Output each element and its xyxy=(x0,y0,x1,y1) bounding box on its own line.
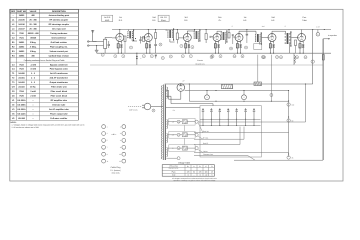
chassis line labels xyxy=(195,59,204,65)
grid condenser C2 xyxy=(210,36,214,37)
cathode network V6 xyxy=(269,41,274,54)
svg-text:11: 11 xyxy=(242,55,244,58)
rectifier output wire B+ xyxy=(185,90,289,91)
filament winding row 2 xyxy=(168,131,198,138)
label box antenna stage xyxy=(102,15,113,22)
wire to V2 grid xyxy=(141,37,145,39)
cathode network V3 xyxy=(185,41,190,54)
bias tap row xyxy=(167,157,181,160)
svg-text:Chassis: Chassis xyxy=(197,59,203,62)
rectifier cathode loop wires xyxy=(166,90,213,107)
label detector stage xyxy=(243,16,247,22)
series resistor in high B+ line xyxy=(254,55,262,86)
svg-text:RF antenna coupler: RF antenna coupler xyxy=(50,19,69,22)
svg-text:24004: 24004 xyxy=(19,54,25,57)
svg-text:90: 90 xyxy=(193,171,195,174)
svg-text:view ends: view ends xyxy=(112,171,120,174)
svg-text:Vol. Ctl.: Vol. Ctl. xyxy=(160,16,167,19)
tube V2 2nd RF amplifier xyxy=(144,34,152,42)
grid leak R1 and condenser xyxy=(228,30,234,45)
svg-text:5: 5 xyxy=(151,55,152,58)
filament pin circles V6 xyxy=(263,56,283,59)
svg-text:Tuning condenser: Tuning condenser xyxy=(50,32,67,35)
plate resistor stage2 xyxy=(155,30,157,42)
svg-text:to speaker: to speaker xyxy=(328,34,337,37)
wire antenna to coil xyxy=(93,41,104,43)
tube V3 3rd RF amplifier xyxy=(183,34,191,42)
svg-text:2 Meg.: 2 Meg. xyxy=(30,41,37,44)
svg-text:Cable Plug: Cable Plug xyxy=(111,166,121,169)
label detector tube xyxy=(218,16,222,22)
svg-text:Bypass condenser: Bypass condenser xyxy=(50,63,68,66)
svg-text:Antenna binding post: Antenna binding post xyxy=(49,14,70,17)
svg-text:9: 9 xyxy=(160,43,161,46)
filter choke CH xyxy=(222,84,233,88)
cathode network V4 xyxy=(214,41,219,54)
svg-text:-40: -40 xyxy=(205,174,208,177)
wire to V7 grid xyxy=(291,37,298,39)
svg-text:7: 7 xyxy=(190,55,191,58)
svg-text:Gr.: Gr. xyxy=(219,19,222,22)
AF transformer T3 interstage xyxy=(285,31,292,53)
svg-text:3rd: 3rd xyxy=(185,16,188,19)
filament pin circles V7 xyxy=(296,56,308,59)
grid leak resistor stage2 xyxy=(143,37,145,42)
svg-text:1st: 1st xyxy=(244,16,247,19)
svg-text:C+: C+ xyxy=(187,165,189,168)
svg-text:Rheo.: Rheo. xyxy=(161,19,167,22)
cathode network V1 xyxy=(117,41,122,54)
svg-text:5: 5 xyxy=(212,174,213,177)
svg-text:Cathode bias resistor: Cathode bias resistor xyxy=(49,54,70,57)
svg-text:Voltage Table: Voltage Table xyxy=(178,161,191,164)
tube V4 detector xyxy=(213,34,221,42)
svg-text:9: 9 xyxy=(211,56,212,59)
svg-text:24-107: 24-107 xyxy=(18,28,25,31)
antenna symbol xyxy=(91,30,94,41)
svg-text:Following numbered as on Socke: Following numbered as on Socket Plug and… xyxy=(24,59,65,62)
condenser block junction rows xyxy=(200,119,261,125)
svg-text:24002: 24002 xyxy=(19,45,25,48)
line row1 to detector riser xyxy=(198,121,305,123)
power transformer HV secondary winding xyxy=(167,87,168,98)
svg-text:24-400: 24-400 xyxy=(18,72,25,75)
RF transformer L3 xyxy=(166,28,174,42)
to speaker label and arrow xyxy=(323,34,337,40)
svg-text:2: 2 xyxy=(207,96,208,99)
svg-text:UX-112A: UX-112A xyxy=(17,112,26,115)
RF transformer L2 xyxy=(127,29,137,41)
plate wire V1 xyxy=(119,29,120,34)
bypass condenser at bus xyxy=(155,55,165,60)
svg-text:2 mfd: 2 mfd xyxy=(30,95,36,98)
svg-text:7: 7 xyxy=(181,45,182,48)
svg-text:24003: 24003 xyxy=(19,50,25,53)
svg-text:UX-280: UX-280 xyxy=(18,117,26,120)
AC line plug xyxy=(128,103,151,110)
svg-text:Output transformer: Output transformer xyxy=(50,81,69,84)
filament winding row 1 xyxy=(168,118,198,125)
svg-text:R.F.: R.F. xyxy=(119,19,123,22)
label 3rd RF tube xyxy=(184,16,188,22)
svg-text:24-410: 24-410 xyxy=(18,86,25,89)
svg-text:10: 10 xyxy=(234,55,236,58)
label box volume control xyxy=(158,15,169,22)
svg-text:2: 2 xyxy=(244,96,245,99)
detector B+ riser wire xyxy=(305,84,307,122)
svg-text:.5 mfd: .5 mfd xyxy=(30,68,37,71)
svg-text:6: 6 xyxy=(182,55,183,58)
AC plug cord wire xyxy=(151,106,163,108)
svg-text:11: 11 xyxy=(245,46,247,49)
svg-text:Plate: Plate xyxy=(172,171,176,174)
svg-text:15: 15 xyxy=(305,56,307,59)
filament pin circles V5 xyxy=(233,55,244,58)
junction terminal B+ 180 xyxy=(287,100,294,106)
svg-text:2. All condenser values are i: 2. All condenser values are in Mfd. xyxy=(12,126,40,129)
svg-text:110 V. A.C.: 110 V. A.C. xyxy=(129,109,138,112)
svg-text:DESCRIPTION: DESCRIPTION xyxy=(52,10,66,13)
AF transformer T1 xyxy=(221,30,228,44)
filament winding row 3 xyxy=(168,145,198,152)
svg-text:R.F.: R.F. xyxy=(152,19,156,22)
svg-text:30 Hy.: 30 Hy. xyxy=(30,86,36,89)
svg-text:Grid condenser: Grid condenser xyxy=(51,36,66,39)
battery cable harness leads xyxy=(194,122,306,160)
junction terminal B+ 90 xyxy=(287,116,293,122)
svg-text:AMP.: AMP. xyxy=(105,19,110,22)
svg-text:2nd: 2nd xyxy=(152,16,155,19)
svg-text:25 - 350: 25 - 350 xyxy=(29,28,37,31)
svg-text:2nd AF transformer: 2nd AF transformer xyxy=(50,77,69,80)
harness left merge diagonals xyxy=(198,123,203,133)
ground symbol xyxy=(95,46,99,53)
svg-text:Det. input coil: Det. input coil xyxy=(52,28,66,31)
svg-text:Ground Line: Ground Line xyxy=(195,62,204,65)
label power tube xyxy=(302,16,307,22)
border frame xyxy=(10,9,343,181)
grid return resistor stage7 xyxy=(295,40,297,53)
bus drop wire with condenser marks xyxy=(136,53,141,65)
volume control rheostat xyxy=(176,30,178,44)
power transformer core xyxy=(164,85,166,161)
parts list table xyxy=(10,9,78,120)
center tap links between winding rows xyxy=(183,125,185,144)
tuning condenser stage4 xyxy=(205,30,207,44)
svg-text:2 mfd: 2 mfd xyxy=(30,90,36,93)
svg-text:6: 6 xyxy=(170,55,171,58)
svg-text:12: 12 xyxy=(262,56,264,59)
svg-text:24550: 24550 xyxy=(19,14,25,17)
svg-text:2nd: 2nd xyxy=(271,16,274,19)
svg-text:1st AF transformer: 1st AF transformer xyxy=(50,72,68,75)
svg-text:Filter cond. block: Filter cond. block xyxy=(51,95,68,98)
svg-text:UX-200A: UX-200A xyxy=(17,104,26,107)
plate wire V7 to output line xyxy=(302,29,325,34)
RF transformer detector input xyxy=(194,29,201,42)
B+ plate supply bus wire xyxy=(112,29,331,31)
label 1st RF tube xyxy=(119,16,123,22)
svg-text:13: 13 xyxy=(276,56,278,59)
svg-text:Volume control pot.: Volume control pot. xyxy=(50,50,69,53)
B+ drop wire to amp line xyxy=(189,83,190,101)
svg-text:PART NO: PART NO xyxy=(17,10,26,13)
filament pin circles V1 xyxy=(114,55,125,58)
plate wire V4 xyxy=(217,31,222,34)
svg-text:14: 14 xyxy=(296,56,298,59)
filament return bus wire xyxy=(97,52,331,54)
wire to V3 grid xyxy=(178,37,183,39)
svg-text:Plate bypass cond.: Plate bypass cond. xyxy=(50,68,69,71)
output return wire right vertical xyxy=(322,39,324,160)
B plus distribution vertical wire xyxy=(288,90,289,157)
filament winding 3 xyxy=(167,148,168,157)
svg-text:4: 4 xyxy=(143,55,144,58)
svg-text:Detector tube: Detector tube xyxy=(52,104,66,107)
cathode network V2 xyxy=(146,41,151,54)
notes text block xyxy=(11,121,85,129)
svg-text:UX-201A: UX-201A xyxy=(17,108,26,111)
svg-text:R.F.: R.F. xyxy=(184,19,188,22)
filter condenser C5 xyxy=(205,91,210,100)
rectifier tube V8 xyxy=(177,80,185,92)
plate wire V5 xyxy=(239,31,256,34)
voltage table footnote xyxy=(172,177,217,182)
plate wire V2 xyxy=(148,29,149,34)
svg-text:RF interstage coupler: RF interstage coupler xyxy=(49,23,70,26)
svg-text:Grid leak resistor: Grid leak resistor xyxy=(51,41,68,44)
tuning condenser C1 xyxy=(108,41,110,48)
grid resistor R2 xyxy=(124,36,126,53)
junction dots on B+ bus xyxy=(155,29,247,30)
plate wire V3 xyxy=(187,31,194,34)
label 1st AF tube xyxy=(271,16,275,22)
tube V5 1st AF amplifier xyxy=(235,34,243,42)
antenna binding post terminal xyxy=(87,41,96,43)
ground binding post terminal xyxy=(87,45,103,47)
filter condenser C6 xyxy=(242,91,247,100)
bypass condenser comb xyxy=(202,109,255,127)
svg-text:.1 mfd: .1 mfd xyxy=(30,63,37,66)
svg-text:1: 1 xyxy=(102,54,103,57)
svg-text:Power output tube: Power output tube xyxy=(50,112,68,115)
svg-text:24-402: 24-402 xyxy=(18,81,25,84)
svg-text:RF amplifier tube: RF amplifier tube xyxy=(51,99,68,102)
svg-text:NOTE:: NOTE: xyxy=(11,121,17,124)
svg-text:1 Meg.: 1 Meg. xyxy=(30,50,37,53)
speaker return long wire xyxy=(234,39,323,160)
svg-text:24001: 24001 xyxy=(19,41,25,44)
svg-text:13: 13 xyxy=(280,56,282,59)
plate bypass condenser stage5 xyxy=(246,30,248,44)
svg-text:24-105: 24-105 xyxy=(18,19,25,22)
power transformer primary winding xyxy=(161,86,164,160)
filament pin circles V3 xyxy=(181,55,192,58)
cable plug socket diagram xyxy=(102,125,126,175)
cathode network V7 xyxy=(299,41,304,54)
chassis ground bus wire xyxy=(90,64,323,66)
coupling condenser stage1 xyxy=(139,36,141,43)
filament winding 2 xyxy=(167,134,168,143)
svg-text:A.F.: A.F. xyxy=(271,19,275,22)
wire to V5 grid xyxy=(233,36,236,38)
wire to V6 grid xyxy=(262,37,268,39)
svg-text:25 - 350: 25 - 350 xyxy=(29,19,37,22)
svg-text:1st R.F.: 1st R.F. xyxy=(104,16,111,19)
svg-text:25 - 350: 25 - 350 xyxy=(29,23,37,26)
component ref circles in RF stages xyxy=(130,43,279,59)
svg-text:.00025: .00025 xyxy=(30,36,37,39)
tube V1 1st RF amplifier xyxy=(116,34,124,42)
antenna coupling coil L1 xyxy=(104,37,113,53)
output coupling condenser xyxy=(316,30,320,37)
svg-text:-9: -9 xyxy=(199,174,201,177)
junction terminal B+ 45 xyxy=(287,153,293,159)
svg-text:Full wave rectifier: Full wave rectifier xyxy=(50,117,67,120)
svg-text:135: 135 xyxy=(187,171,190,174)
svg-text:1 mf: 1 mf xyxy=(316,26,320,29)
svg-text:24-401: 24-401 xyxy=(18,77,25,80)
filament winding 1 xyxy=(167,120,168,129)
circled terminal at plug xyxy=(152,109,155,112)
riser from B+ det line xyxy=(243,127,245,140)
svg-text:Det.: Det. xyxy=(218,16,222,19)
svg-text:135: 135 xyxy=(199,171,202,174)
svg-text:.00025 - 400: .00025 - 400 xyxy=(27,32,39,35)
svg-text:—#—: —#— xyxy=(111,133,116,136)
label 2nd RF tube xyxy=(152,16,156,22)
screen feed drop wire xyxy=(270,55,273,101)
terminal number circle 1 xyxy=(101,53,104,56)
svg-text:10: 10 xyxy=(230,47,232,50)
svg-text:45: 45 xyxy=(211,171,213,174)
riser from red-fil line xyxy=(239,127,241,145)
svg-text:VALUE: VALUE xyxy=(30,10,37,13)
high B+ wire xyxy=(165,83,313,84)
svg-text:1st AF amplifier tube: 1st AF amplifier tube xyxy=(49,108,70,111)
plate wire V6 xyxy=(272,31,286,34)
svg-text:5: 5 xyxy=(131,46,132,49)
tube V6 2nd AF amplifier xyxy=(268,34,276,42)
svg-text:27: 27 xyxy=(183,80,185,83)
svg-text:24-106: 24-106 xyxy=(18,23,25,26)
svg-text:Pwr.: Pwr. xyxy=(303,16,307,19)
svg-text:Plate coupling res.: Plate coupling res. xyxy=(50,45,68,48)
junction dot antenna xyxy=(96,45,97,46)
cathode network V5 xyxy=(236,41,241,54)
svg-text:9: 9 xyxy=(220,55,221,58)
svg-text:2: 2 xyxy=(115,55,116,58)
filament common diagonal to speaker return xyxy=(248,156,255,161)
filament pin circles V2 xyxy=(142,55,153,58)
output grid bias coil xyxy=(294,53,295,65)
svg-text:1st: 1st xyxy=(119,16,122,19)
AF transformer T2 xyxy=(254,31,262,49)
svg-text:Grid: Grid xyxy=(172,174,175,177)
svg-text:Filter choke unit: Filter choke unit xyxy=(51,86,67,89)
svg-text:180: 180 xyxy=(205,171,208,174)
grid wire to V1 xyxy=(112,37,116,39)
svg-text:.5 Meg.: .5 Meg. xyxy=(30,45,37,48)
svg-text:3: 3 xyxy=(123,55,124,58)
svg-text:Filter cond. block: Filter cond. block xyxy=(51,90,68,93)
voltage table xyxy=(162,164,214,176)
bypass condenser stage2 xyxy=(154,42,157,54)
svg-text:8: 8 xyxy=(192,46,193,49)
output return wire left vertical xyxy=(311,30,314,85)
svg-text:UX-201A: UX-201A xyxy=(17,99,26,102)
svg-text:-9: -9 xyxy=(187,174,189,177)
B+ feed resistor V7 region xyxy=(305,29,307,31)
tube V7 power output xyxy=(298,34,306,42)
svg-text:A.F.: A.F. xyxy=(243,19,247,22)
filament pin circles V4 xyxy=(211,55,222,58)
condenser block outline xyxy=(200,106,261,157)
B+ feed line above condenser block xyxy=(189,101,288,102)
